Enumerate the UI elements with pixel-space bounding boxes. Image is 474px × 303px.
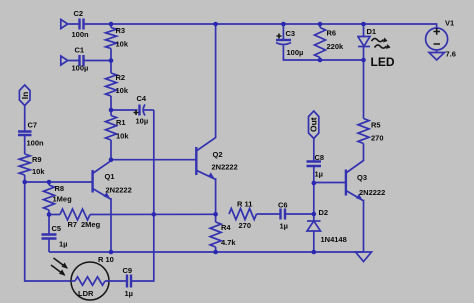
junction node: R6 bottom bbox=[318, 58, 323, 63]
svg-text:100µ: 100µ bbox=[287, 48, 304, 57]
resistor R5 bbox=[358, 60, 384, 144]
svg-text:10k: 10k bbox=[116, 40, 129, 49]
ground (bottom right) bbox=[356, 252, 372, 262]
svg-text:100n: 100n bbox=[72, 30, 90, 39]
svg-text:2N2222: 2N2222 bbox=[359, 188, 385, 197]
resistor R6 bbox=[315, 24, 364, 60]
resistor R2 bbox=[106, 61, 129, 111]
wire C4 vertical bbox=[132, 110, 154, 281]
svg-text:C1: C1 bbox=[75, 46, 85, 55]
wire Out to C8 bbox=[313, 139, 315, 162]
svg-text:R2: R2 bbox=[116, 73, 126, 82]
junction node: C4 branch / R7 row bbox=[152, 212, 157, 217]
svg-text:Q2: Q2 bbox=[213, 150, 223, 159]
svg-text:C6: C6 bbox=[278, 201, 288, 210]
svg-text:R3: R3 bbox=[116, 26, 126, 35]
junction node: top rail / C2 / R3 bbox=[109, 22, 114, 27]
svg-text:10k: 10k bbox=[116, 86, 129, 95]
svg-text:C2: C2 bbox=[74, 9, 84, 18]
junction node: top rail / R6 bbox=[318, 22, 323, 27]
junction node: top rail / Q2 collector bbox=[213, 22, 218, 27]
base wire to Q1 bbox=[25, 181, 93, 183]
junction node: Q1 emitter / bottom rail bbox=[109, 250, 114, 255]
resistor R11 bbox=[229, 200, 280, 231]
transistor Q2 bbox=[196, 24, 237, 214]
resistor R7 bbox=[49, 209, 216, 229]
resistor R9 bbox=[19, 154, 45, 182]
svg-text:R7: R7 bbox=[68, 220, 78, 229]
junction node: C1 / R3 / R2 bbox=[109, 58, 114, 63]
junction node: R4 / bottom rail bbox=[213, 250, 218, 255]
svg-text:220k: 220k bbox=[327, 42, 345, 51]
junction node: R8 / R7 / C5 bbox=[47, 212, 52, 217]
svg-text:R9: R9 bbox=[32, 155, 42, 164]
connector input (C1 side) bbox=[61, 56, 79, 65]
junction node: D2 / bottom rail bbox=[312, 250, 317, 255]
junction node: top rail / D1 anode bbox=[361, 22, 366, 27]
svg-text:2N2222: 2N2222 bbox=[212, 163, 238, 172]
svg-text:In: In bbox=[20, 92, 30, 100]
resistor R8 bbox=[44, 182, 73, 215]
connector input (C2 side) bbox=[61, 20, 79, 29]
svg-text:Q1: Q1 bbox=[105, 172, 115, 181]
capacitor C3 bbox=[276, 24, 320, 60]
connector Out bbox=[309, 111, 319, 139]
capacitor C1 bbox=[80, 55, 84, 66]
wire Q1 collector row to Q2 base bbox=[111, 159, 196, 161]
junction node: D1 cathode / R5 / C3 row bbox=[361, 58, 366, 63]
svg-text:1µ: 1µ bbox=[59, 240, 68, 249]
junction node: R11 row / D2 / C8 branch bbox=[312, 212, 317, 217]
wire C7 to R9 bbox=[24, 135, 26, 154]
svg-text:R4: R4 bbox=[221, 223, 231, 232]
svg-text:LED: LED bbox=[371, 55, 395, 69]
top rail wire bbox=[84, 24, 437, 28]
junction node: C8 / Q3 base bbox=[312, 181, 317, 186]
svg-text:C4: C4 bbox=[137, 94, 147, 103]
svg-text:1µ: 1µ bbox=[315, 170, 324, 179]
svg-text:D2: D2 bbox=[319, 208, 329, 217]
capacitor C6 bbox=[278, 201, 314, 231]
capacitor C8 bbox=[307, 153, 325, 179]
bottom rail bbox=[49, 251, 364, 253]
wire In to C7 bbox=[24, 106, 26, 132]
svg-text:1Meg: 1Meg bbox=[53, 195, 73, 204]
svg-text:Out: Out bbox=[309, 117, 319, 132]
resistor R4 bbox=[210, 214, 236, 252]
svg-text:V1: V1 bbox=[445, 19, 454, 28]
svg-text:2Meg: 2Meg bbox=[81, 220, 101, 229]
svg-text:D1: D1 bbox=[367, 27, 377, 36]
svg-text:2N2222: 2N2222 bbox=[106, 186, 132, 195]
capacitor C9 bbox=[123, 266, 134, 298]
svg-text:R 11: R 11 bbox=[237, 200, 252, 209]
junction node: R9 / Q1 base / LDR branch bbox=[22, 180, 27, 185]
junction node: R2 / R1 / C4 bbox=[109, 108, 114, 113]
junction node: R8 top bbox=[47, 180, 52, 185]
junction node: Q2 emitter / R4 / R11 bbox=[213, 212, 218, 217]
svg-text:Q3: Q3 bbox=[357, 173, 367, 182]
wire C1 to node bbox=[84, 60, 111, 62]
capacitor C7 bbox=[18, 121, 44, 148]
svg-text:C9: C9 bbox=[123, 266, 133, 275]
junction node: top rail / C3 bbox=[281, 22, 286, 27]
left vertical wire to LDR bbox=[25, 182, 71, 281]
voltage source V1 bbox=[426, 19, 456, 59]
connector In bbox=[19, 85, 30, 106]
svg-text:1µ: 1µ bbox=[125, 289, 134, 298]
svg-text:C8: C8 bbox=[315, 153, 325, 162]
svg-text:10µ: 10µ bbox=[136, 117, 149, 126]
diode D1 LED bbox=[358, 24, 395, 69]
svg-text:10k: 10k bbox=[116, 132, 129, 141]
svg-text:1N4148: 1N4148 bbox=[321, 235, 347, 244]
svg-text:100n: 100n bbox=[27, 139, 45, 148]
wire C8 to node and down to D2 bbox=[313, 166, 315, 214]
capacitor C5 bbox=[42, 215, 68, 253]
transistor Q1 bbox=[93, 160, 132, 252]
svg-text:C7: C7 bbox=[28, 121, 38, 130]
svg-text:LDR: LDR bbox=[78, 289, 94, 298]
svg-text:R6: R6 bbox=[327, 29, 337, 38]
svg-text:4.7k: 4.7k bbox=[221, 238, 236, 247]
capacitor C2 bbox=[80, 19, 84, 30]
ground (V1) bbox=[429, 53, 445, 61]
transistor Q3 bbox=[346, 144, 385, 253]
svg-text:R5: R5 bbox=[371, 121, 381, 130]
svg-text:100µ: 100µ bbox=[72, 64, 89, 73]
svg-text:270: 270 bbox=[371, 134, 384, 143]
svg-text:270: 270 bbox=[239, 221, 252, 230]
svg-text:R8: R8 bbox=[55, 184, 65, 193]
svg-text:R1: R1 bbox=[116, 118, 126, 127]
photoresistor R10 LDR bbox=[51, 255, 127, 300]
svg-text:C5: C5 bbox=[52, 224, 62, 233]
resistor R1 bbox=[106, 110, 130, 160]
svg-text:C3: C3 bbox=[286, 29, 296, 38]
svg-text:R 10: R 10 bbox=[98, 255, 114, 264]
diode D2 bbox=[307, 208, 347, 252]
resistor R3 bbox=[106, 24, 129, 61]
capacitor C4 bbox=[111, 94, 154, 126]
svg-text:7.6: 7.6 bbox=[446, 50, 456, 59]
svg-text:10k: 10k bbox=[32, 167, 45, 176]
base wire to Q3 bbox=[314, 182, 346, 184]
junction node: R1 / Q1 collector / Q2 base wire bbox=[109, 157, 114, 162]
svg-text:1µ: 1µ bbox=[280, 222, 289, 231]
